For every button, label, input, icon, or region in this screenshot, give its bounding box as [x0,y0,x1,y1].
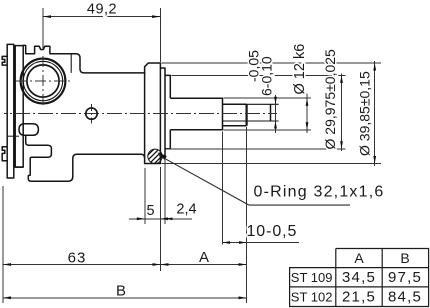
svg-text:63: 63 [68,250,87,267]
left clamp bar 1 [7,44,14,178]
flange bottom ext (O39.85) [162,163,382,165]
svg-text:ST 109: ST 109 [291,270,333,285]
10-0,5 right arrow [239,241,247,244]
ext line x=165 for 2,4 [164,160,166,225]
svg-text:6-0,10: 6-0,10 [259,56,275,96]
lower left tab [2,147,7,161]
pilot step 1 (O39.85 land) [161,68,166,158]
O-ring cross-section hatched [139,137,173,177]
step2 top ext (O29.975) [171,74,345,76]
49,2 right extension / flange face ext [160,8,162,62]
tang end face [270,104,272,121]
dim line 5 / 2,4 [129,218,192,220]
small hole [86,108,97,119]
svg-text:Ø 12 k6: Ø 12 k6 [292,44,308,95]
dim line B [3,297,247,299]
dim line 6 [275,95,277,133]
5 dim left arrow [137,217,145,220]
svg-text:0-Ring 32,1x1,6: 0-Ring 32,1x1,6 [254,184,385,201]
O12 bottom arrow [306,122,309,130]
flange top ext (O39.85) [162,62,382,64]
svg-text:49,2: 49,2 [87,2,117,18]
B left arrow [3,296,11,299]
dim line O29.975 [341,74,343,152]
svg-text:84,5: 84,5 [388,289,422,306]
O29.975 bottom arrow [340,141,343,149]
ext line x=145.5 for 5 [144,168,146,224]
cylA bottom ext (O12) [224,129,312,131]
O39.85 top arrow [373,63,376,71]
dim line 10-0,5 with label shelf [223,242,300,244]
svg-text:97,5: 97,5 [388,269,422,286]
10-0,5 left arrow [223,241,231,244]
svg-text:A: A [199,249,209,266]
slot shoulder [246,104,248,126]
B right arrow [239,296,247,299]
big circle h centerline [16,80,70,82]
svg-text:A: A [354,250,364,266]
svg-text:Ø 29,975±0,025: Ø 29,975±0,025 [322,49,338,150]
big circle v centerline [42,56,44,107]
6 bottom arrow (outside, pointing up) [274,121,277,129]
big port circle middle [23,61,62,100]
table [290,249,429,307]
centerlines [4,56,277,124]
big port circle outer [21,59,66,104]
ext line x=220 for 10-0,5 [222,132,224,245]
6 top arrow (outside, pointing down) [274,97,277,105]
left clamp bar 2 [15,46,23,168]
A left arrow [161,263,169,266]
O29.975 top arrow [340,75,343,83]
slot floor and tang top lines [223,104,279,121]
dim line O12 [306,94,308,134]
O-ring leader arrow [157,152,167,160]
O-ring leader [159,155,350,205]
ext line x=246.5 for 10/A/B [246,127,248,303]
body outline top [23,45,146,73]
49,2 dim line [43,16,161,18]
O39.85 bottom arrow [373,156,376,164]
cylA top ext (O12) [224,97,312,99]
clamp split line [7,135,19,137]
svg-text:21,5: 21,5 [342,289,376,306]
svg-text:5: 5 [146,203,154,219]
shaft B top and bottom [223,104,247,126]
ext line x=3 for 63/B [2,186,4,303]
A right arrow [239,263,247,266]
body bottom outline [26,136,145,181]
main centerline [4,113,277,115]
cylinder A (O12) [170,98,222,130]
49,2 right arrow [152,15,161,18]
mounting flange [145,63,161,164]
small hole v centerline [91,104,93,124]
svg-text:2,4: 2,4 [176,202,196,218]
dim line O39.85 [374,61,376,166]
svg-text:10-0,5: 10-0,5 [247,223,298,240]
49,2 left arrow [43,15,51,18]
63/A shared arrow at flange [153,263,161,266]
svg-text:B: B [116,283,126,300]
5/2,4 middle arrows [161,217,169,220]
arrowheads [3,15,376,299]
table outline [290,249,429,307]
dim line 63 / A [3,264,247,266]
svg-text:ST 102: ST 102 [291,290,333,305]
ext line x=160.5 for 5/2,4/63/A [160,167,162,271]
svg-text:B: B [400,250,409,266]
O12 top arrow [306,98,309,106]
49,2 left extension [42,8,44,49]
pilot step 2 (O29.975) [165,75,170,148]
upper left tab [2,56,7,65]
svg-text:Ø 39,85±0,15: Ø 39,85±0,15 [357,71,373,156]
63 left arrow [3,263,11,266]
step2 bottom ext (O29.975) [166,148,346,150]
boss edge line [70,54,72,73]
bar2 bottom edge line [15,166,23,168]
svg-text:34,5: 34,5 [342,269,376,286]
clamp slot [19,124,38,136]
big port circle bore [27,65,59,97]
